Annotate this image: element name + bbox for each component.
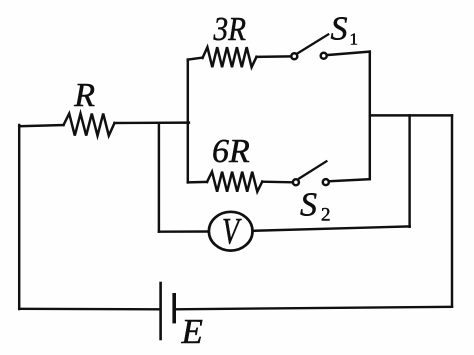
switch S2 lever — [299, 161, 326, 178]
resistor 6R — [207, 172, 262, 192]
wire: right outer vertical — [451, 115, 453, 306]
battery E: long plate — [159, 283, 162, 339]
wire: 3R branch lead-in — [188, 58, 203, 60]
wire: junction vertical up to top link — [408, 115, 410, 226]
wire: 6R to switch S2 — [262, 180, 292, 183]
switch S2 contact circle right — [323, 179, 329, 185]
svg-text:V: V — [222, 210, 242, 251]
wire: voltmeter to right junction — [253, 226, 410, 230]
wire: left outer vertical — [18, 125, 20, 309]
wire: bottom left horizontal to battery — [19, 308, 159, 311]
resistor 3R — [203, 47, 257, 67]
battery E: short plate — [172, 295, 176, 322]
wire: parallel-section right rail vertical — [369, 52, 371, 180]
resistor R — [64, 114, 115, 136]
switch S1 lever — [298, 34, 329, 53]
wire: node A to parallel-section left rail — [115, 121, 189, 124]
wire: voltmeter branch vertical from node A — [158, 124, 160, 232]
wire: top link from parallel-section right rail to right outer vertical — [370, 114, 452, 116]
wire: 3R to switch S1 — [257, 55, 291, 58]
wire: switch S2 to parallel-section right rail — [330, 179, 370, 181]
switch S1 contact circle left — [291, 53, 297, 59]
svg-text:R: R — [73, 77, 95, 114]
wire: bottom right horizontal from battery — [174, 307, 452, 310]
svg-text:S2: S2 — [300, 186, 331, 225]
svg-text:3R: 3R — [213, 11, 246, 48]
svg-text:E: E — [181, 312, 203, 351]
svg-text:6R: 6R — [212, 133, 250, 170]
wire: voltmeter branch horizontal to meter — [159, 230, 209, 233]
wire: switch S1 to parallel-section right rail — [328, 52, 370, 55]
voltmeter V body — [209, 212, 253, 251]
switch S1 contact circle right — [321, 53, 327, 59]
wire: parallel-section left rail vertical — [187, 60, 189, 183]
svg-text:S1: S1 — [331, 10, 359, 48]
wire: 6R branch lead-in — [188, 181, 207, 184]
wire: main top-left horizontal, battery+ to node A — [19, 125, 63, 126]
switch S2 contact circle left — [293, 179, 299, 185]
